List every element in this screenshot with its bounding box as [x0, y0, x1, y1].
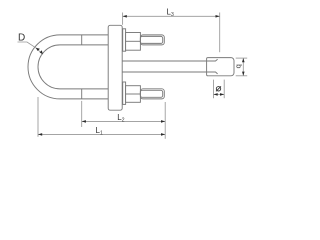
label L3: [167, 8, 174, 19]
dimension b line: [242, 58, 244, 76]
b arrowheads: [242, 58, 245, 76]
diameter arrowheads: [214, 93, 225, 96]
dimension diameter extension lines: [214, 80, 225, 99]
dimension D leader: [18, 42, 43, 54]
nut bottom facet line: [126, 93, 141, 95]
sleeve crimp top: [207, 59, 218, 61]
thread start tick top leg: [81, 35, 83, 45]
svg-text:D: D: [18, 33, 25, 44]
label L2: [117, 113, 124, 124]
L1 arrowheads: [38, 133, 165, 136]
L3 arrowheads: [123, 15, 220, 18]
washer top: [123, 29, 126, 51]
nut top facet line: [126, 40, 141, 42]
nut bottom: [126, 86, 141, 103]
stud end bottom outer: [140, 89, 164, 99]
stud end top inner thread line: [140, 36, 162, 43]
dimension diameter line: [214, 93, 225, 95]
dimension L1 line: [38, 133, 165, 135]
thread start tick bottom leg: [81, 89, 83, 99]
dimension b extension lines: [236, 58, 248, 76]
svg-text:L1: L1: [96, 126, 103, 137]
dimension L3 extension lines: [123, 13, 220, 53]
nut top: [126, 33, 141, 51]
U-bolt bottom leg rod: [60, 89, 108, 99]
svg-text:L3: L3: [167, 8, 174, 19]
plate: [108, 25, 122, 110]
L2 arrowheads: [82, 120, 166, 123]
shared right extension line: [164, 102, 166, 139]
label diameter: [216, 86, 221, 91]
dimension L3 line: [123, 15, 220, 17]
dimension L2 line: [82, 120, 166, 122]
U-bolt outer bend: [28, 35, 60, 99]
svg-text:L2: L2: [117, 113, 124, 124]
sleeve outline: [207, 58, 234, 76]
U-bolt inner bend: [38, 45, 60, 89]
svg-text:b: b: [235, 64, 244, 68]
dimension L2 extension line left: [38, 97, 165, 139]
stud end bottom inner thread line: [140, 90, 162, 97]
label b: [235, 64, 244, 68]
dimension L1 extension line left: [37, 97, 39, 137]
label D: [18, 33, 25, 44]
label L1: [96, 126, 103, 137]
D arrowheads: [36, 48, 43, 55]
stud end top outer: [140, 35, 164, 45]
middle rod: [122, 61, 206, 72]
washer bottom: [123, 82, 126, 104]
U-bolt top leg rod: [60, 35, 108, 45]
sleeve crimp bottom: [207, 72, 218, 74]
